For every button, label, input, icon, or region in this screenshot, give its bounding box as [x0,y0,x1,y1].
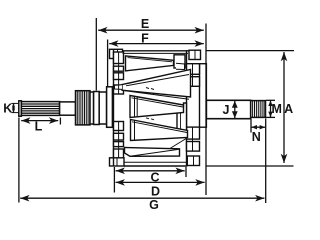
shaft left plain section [60,102,76,115]
dim L line [21,120,58,122]
right pole castellation tab 2 [187,77,200,87]
svg-text:F: F [141,31,149,45]
svg-text:M: M [271,102,281,116]
band2 lower edge line [125,91,189,100]
dim E/F/D right extension [205,24,207,196]
right fan cup [200,64,207,127]
left pole castellation tab 6 [114,133,124,140]
right pole castellation tab 3 [187,127,200,139]
rotor bottom-right rim block [187,156,199,166]
rivet ticks b [146,118,149,119]
dim C right extension [185,167,187,177]
dim E left extension [95,18,97,91]
claw band1 tip block [174,55,185,68]
dim K ticks [12,102,19,104]
claw band2 left neck [115,85,123,90]
rotor top rim inner line [123,52,189,54]
right pole castellation tab 4 [187,142,200,152]
dim M ticks [266,99,275,101]
rotor top-left rim block [110,49,123,58]
svg-text:C: C [150,170,159,184]
rotor bottom edge [124,165,187,167]
dim E line [98,29,204,31]
svg-text:L: L [35,120,43,134]
left pole castellation tab 2 [114,66,124,71]
dim A top reference line [206,50,294,52]
svg-text:G: G [149,198,159,212]
thread hatch lines [76,91,78,125]
spline groove lines [21,103,59,105]
svg-text:A: A [284,102,293,116]
svg-text:N: N [252,130,261,144]
dim C line [116,170,185,172]
dim C left extension [113,167,115,193]
right pole face line [186,50,188,165]
svg-text:K: K [3,102,12,116]
rotor bottom-left rim block [110,158,125,166]
dim F line [109,43,204,45]
left pole castellation tab 8 [114,149,124,158]
rivet ticks a [146,88,149,89]
ring washer 3 [99,92,106,124]
right column inner line bottom [192,127,194,151]
rotor bottom rim inner line [124,161,187,163]
dim A vertical line [283,52,285,163]
right pole mid block [177,103,187,135]
svg-text:J: J [223,103,230,117]
svg-text:D: D [151,184,160,198]
threaded collar [76,91,91,125]
left pole castellation tab 1 [114,52,124,64]
right column inner line top [192,64,194,87]
claw band1 tip neck [176,63,185,69]
dim L right extension [59,118,61,125]
dim K arrow [13,103,15,112]
dim F left extension [107,40,109,88]
claw band2 right-to-left [122,70,191,98]
ring washer 2 [94,92,100,125]
thread hatch [252,101,254,118]
right pole castellation tab 1 [187,64,200,75]
lower-right gap edge [165,138,187,152]
left pole castellation tab 7 [114,142,124,147]
left pole face line [113,49,115,166]
left column inner line top [118,52,120,94]
left pole castellation tab 4 [114,85,124,94]
left pole castellation tab 5 [114,122,124,131]
dim N left extension [250,119,252,133]
bottom inner edge line [130,149,179,156]
claw band3 left-to-right [130,96,184,118]
left pole castellation tab 3 [114,73,124,80]
coil vertical line a [134,97,136,117]
svg-text:E: E [141,17,149,31]
left column inner line bottom [118,122,120,158]
dim M arrow [270,100,272,117]
ring washer 1 [90,92,94,124]
coil vertical line b [136,97,138,116]
coil vertical line c [134,121,136,141]
claw band5 bottom [125,148,180,157]
left spacer face [107,87,113,128]
claw band1 left-to-right [126,56,174,71]
dim A bottom reference line [206,165,294,167]
dim D line [116,181,205,183]
threaded end block [251,101,266,118]
shaft left spline tip cap [19,101,22,116]
rotor top edge [123,50,190,52]
right shaft section [206,100,250,118]
claw band4 left-to-right [131,120,188,141]
rotor top-right rim block [189,50,201,59]
dim J arrow [234,101,236,118]
dim G left extension [18,118,20,203]
shaft left splined section [21,102,59,116]
dim G right extension [265,119,267,204]
dim N line [251,126,265,128]
dim G line [20,197,264,199]
